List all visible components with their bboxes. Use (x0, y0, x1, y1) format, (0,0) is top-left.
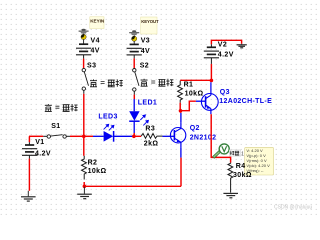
node E junction (210, 79, 214, 83)
wire Q2 collector to node D (180, 113, 182, 123)
wire Q2 emitter down to bottom wire (180, 147, 182, 157)
LED3 (93, 131, 133, 142)
transistor Q3 (201, 82, 218, 114)
wire S3 to node A (83, 90, 85, 94)
svg-text:10kΩ: 10kΩ (88, 168, 107, 175)
transistor Q2 (170, 123, 185, 148)
svg-text:Q2: Q2 (190, 125, 200, 132)
resistor R4 (228, 163, 233, 193)
S3 key label 键 = 空格 (90, 79, 123, 86)
wire node D step to Q3 base (181, 101, 196, 111)
battery V1 (22, 136, 37, 158)
svg-text:V4: V4 (91, 37, 100, 44)
battery V4 (76, 44, 91, 58)
svg-text:R1: R1 (184, 81, 194, 88)
resistor R3 (141, 134, 162, 139)
node B junction (83, 185, 87, 189)
wire R2 to node B (83, 182, 85, 186)
ground below node B (77, 186, 92, 198)
bottom wire node B to Q2 emitter (84, 185, 181, 187)
svg-text:CSDN @chaluuu: CSDN @chaluuu (274, 205, 312, 211)
svg-text:R4: R4 (236, 163, 246, 170)
wire LED1 to node C (133, 133, 135, 136)
wire Q3 emitter to R4 (211, 114, 230, 162)
wire V1 to S1 (29, 135, 43, 137)
note KEYIN (90, 17, 105, 29)
svg-text:Q3: Q3 (220, 89, 230, 96)
node A junction (82, 135, 86, 139)
svg-text:KEYIN: KEYIN (90, 18, 105, 23)
battery V2 (204, 44, 219, 64)
probe indicator on V3 (129, 30, 139, 44)
node D junction (179, 109, 183, 113)
wire S2 to LED1 (133, 91, 135, 94)
ground below V1 (21, 191, 36, 201)
lead R3 to Q2 base (163, 135, 175, 137)
wire node A down to R2 (83, 136, 85, 156)
wire V2 top to ground (211, 40, 241, 44)
svg-text:30kΩ: 30kΩ (233, 172, 252, 179)
switch S2 (133, 69, 139, 92)
wire V1 to ground (28, 159, 30, 191)
LED1 emission arrows (140, 115, 148, 126)
S1 key label 键 = 空格 (45, 104, 78, 111)
svg-text:S2: S2 (140, 63, 149, 70)
svg-text:LED1: LED1 (138, 99, 157, 106)
svg-text:2kΩ: 2kΩ (144, 141, 159, 148)
Q3 base lead (196, 100, 206, 102)
switch S3 (82, 68, 88, 90)
probe 探针1 (213, 144, 229, 158)
probe tooltip (245, 147, 274, 175)
wire node A to LED3 (84, 135, 93, 137)
ground near V2 (237, 44, 247, 48)
wire R1 top to node E (180, 79, 211, 81)
wire S1 to node A (66, 135, 70, 137)
probe label 探针1 (229, 150, 244, 158)
LED1 (129, 99, 139, 133)
resistor R1 (178, 81, 183, 103)
svg-text:LED3: LED3 (98, 114, 117, 121)
svg-text:R2: R2 (88, 159, 98, 166)
svg-text:2N2102: 2N2102 (190, 134, 217, 141)
switch S1 (47, 135, 66, 139)
resistor R2 (82, 156, 87, 180)
wire V3 to S2 (133, 58, 135, 68)
svg-text:S1: S1 (51, 123, 60, 130)
battery V3 (127, 44, 142, 58)
svg-text:1: 1 (241, 152, 244, 158)
svg-text:R3: R3 (145, 126, 155, 133)
wire R1 bottom to node D (179, 103, 181, 111)
S2 key label 键 = 空格 (141, 79, 174, 86)
wire node E up to V2 (210, 64, 212, 81)
svg-text:KEYOUT: KEYOUT (141, 19, 159, 24)
svg-text:4.2V: 4.2V (35, 150, 51, 157)
node C junction (LED1/LED3/R3) (132, 135, 136, 139)
svg-text:12A02CH-TL-E: 12A02CH-TL-E (219, 98, 272, 105)
note KEYOUT (141, 17, 159, 34)
svg-text:10kΩ: 10kΩ (185, 90, 204, 97)
ground below R4 (223, 193, 238, 197)
wire node C to R3 (134, 135, 141, 137)
svg-text:4V: 4V (141, 48, 150, 55)
svg-text:4.2V: 4.2V (218, 51, 234, 58)
probe indicator on V4 (79, 29, 89, 44)
svg-text:V1: V1 (35, 139, 44, 146)
svg-text:V2: V2 (218, 41, 227, 48)
svg-text:4V: 4V (91, 48, 100, 55)
LED3 emission arrows (104, 124, 114, 130)
svg-text:S3: S3 (87, 62, 96, 69)
svg-text:V3: V3 (141, 38, 150, 45)
wire V4 to S3 (83, 59, 85, 69)
